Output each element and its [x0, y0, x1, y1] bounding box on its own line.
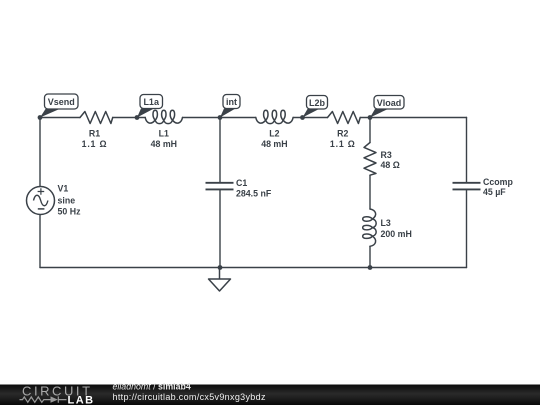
inductor L3: [363, 209, 376, 246]
svg-text:Vsend: Vsend: [48, 97, 75, 107]
ground: [209, 268, 231, 292]
svg-text:R3: R3: [381, 150, 392, 160]
voltage source V1: [27, 187, 55, 215]
inductor L1: [145, 110, 182, 123]
footer bar: [0, 385, 540, 405]
svg-text:1.1 Ω: 1.1 Ω: [82, 139, 108, 149]
node flag Vload: [370, 96, 404, 118]
node flag int: [220, 95, 240, 118]
svg-text:L2b: L2b: [309, 98, 326, 108]
node dot Vload: [368, 115, 373, 120]
wire top: Vsend node to R1: [40, 117, 80, 119]
resistor R3: [364, 143, 376, 176]
wire left rail lower: [39, 215, 41, 268]
svg-text:LAB: LAB: [68, 394, 95, 405]
wire L3 to bottom rail: [369, 246, 371, 267]
resistor R1: [80, 112, 113, 124]
wire R3 to L3: [369, 175, 371, 209]
resistor R2: [328, 112, 361, 124]
junction dot load branch bottom: [368, 265, 373, 270]
svg-text:R2: R2: [337, 128, 348, 138]
capacitor Ccomp: [453, 183, 481, 190]
node flag L2b: [303, 96, 328, 118]
capacitor C1: [206, 183, 234, 190]
node flag Vsend: [40, 94, 78, 118]
wire right rail lower: [466, 189, 468, 267]
svg-text:C1: C1: [236, 178, 247, 188]
svg-text:48 mH: 48 mH: [151, 139, 177, 149]
svg-text:L1a: L1a: [143, 97, 160, 107]
node dot L2b: [300, 115, 305, 120]
svg-text:1.1 Ω: 1.1 Ω: [330, 139, 356, 149]
svg-text:http://circuitlab.com/cx5v9nxg: http://circuitlab.com/cx5v9nxg3ybdz: [113, 392, 266, 402]
node dot int: [218, 115, 223, 120]
wire right rail upper: [466, 118, 468, 183]
svg-text:Ccomp: Ccomp: [483, 177, 513, 187]
svg-text:eliadnomt / simlab4: eliadnomt / simlab4: [113, 381, 191, 391]
wire top: L1 to L2: [183, 117, 256, 119]
svg-text:sine: sine: [58, 195, 76, 205]
svg-text:200 mH: 200 mH: [381, 229, 412, 239]
wire top: R1 to L1: [113, 117, 146, 119]
junction dot C1/ground: [218, 265, 223, 270]
wire C1 branch lower: [219, 189, 221, 267]
svg-text:284.5 nF: 284.5 nF: [236, 189, 272, 199]
inductor L2: [256, 110, 293, 123]
svg-text:50 Hz: 50 Hz: [58, 207, 82, 217]
wire Vload branch to R3: [369, 118, 371, 143]
svg-text:48 mH: 48 mH: [261, 139, 287, 149]
wire top: L2 to R2: [293, 117, 327, 119]
svg-text:48 Ω: 48 Ω: [381, 160, 400, 170]
svg-text:L2: L2: [269, 128, 279, 138]
svg-text:Vload: Vload: [377, 98, 402, 108]
node dot Vsend: [38, 115, 43, 120]
wire top: R2 to right corner: [360, 117, 466, 119]
wire left rail upper: [39, 118, 41, 187]
svg-text:int: int: [226, 97, 237, 107]
svg-text:45 µF: 45 µF: [483, 187, 506, 197]
logo resistor-diode glyph: [20, 396, 67, 402]
wire C1 branch upper: [219, 118, 221, 183]
svg-text:V1: V1: [58, 184, 69, 194]
svg-text:L3: L3: [381, 218, 391, 228]
node flag L1a: [137, 95, 163, 118]
svg-text:R1: R1: [89, 129, 100, 139]
node dot L1a: [135, 115, 140, 120]
wire bottom rail: [40, 267, 467, 269]
svg-text:L1: L1: [159, 128, 169, 138]
